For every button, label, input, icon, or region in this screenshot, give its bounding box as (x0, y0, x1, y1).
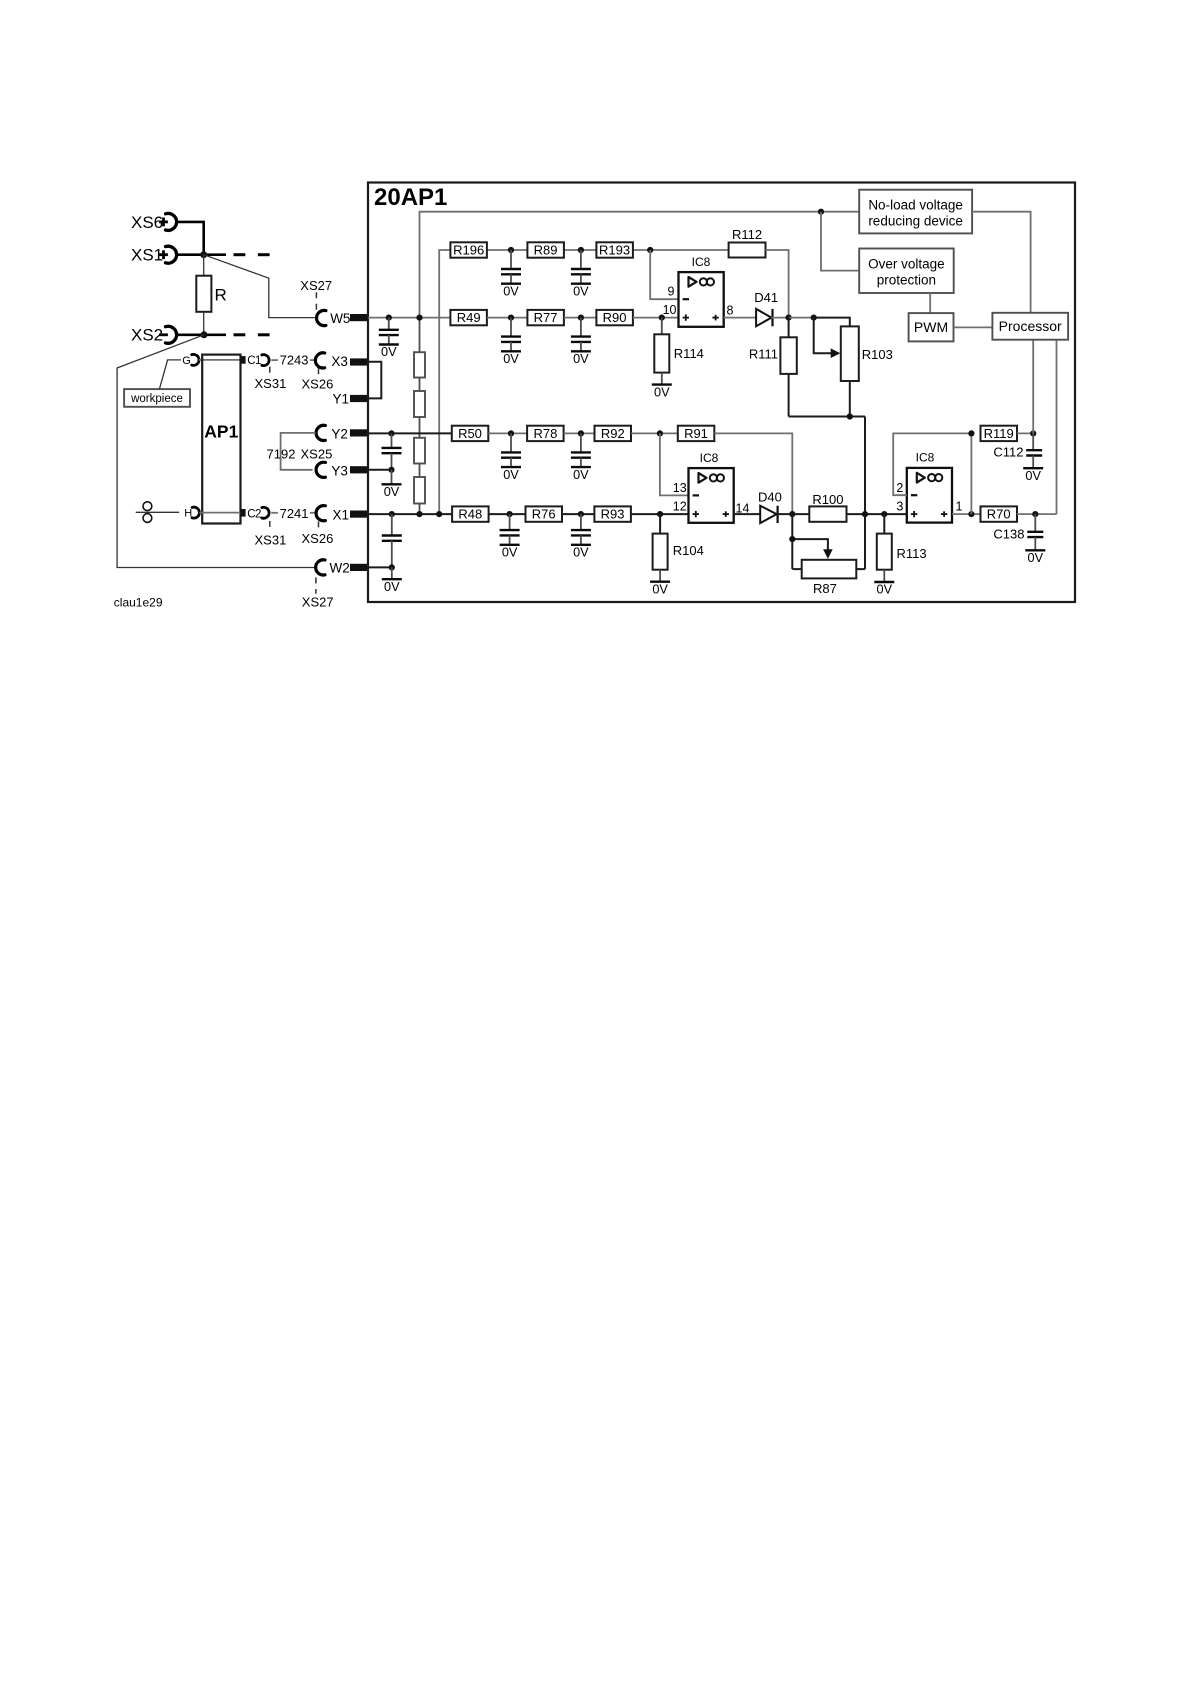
resistor R77 (527, 310, 564, 325)
svg-text:R113: R113 (897, 546, 927, 561)
svg-text:Y2: Y2 (331, 427, 348, 442)
box 20AP1 (368, 183, 1075, 603)
wire R112 to D41 node (766, 250, 789, 318)
svg-text:0V: 0V (573, 546, 589, 560)
svg-text:R77: R77 (534, 310, 558, 325)
svg-text:clau1e29: clau1e29 (114, 596, 163, 610)
node R113 tap (881, 511, 887, 517)
svg-text:No-load voltage: No-load voltage (868, 197, 963, 212)
pin 10 (663, 303, 689, 321)
pin 8 (712, 304, 733, 321)
svg-text:AP1: AP1 (204, 422, 238, 442)
svg-text:PWM: PWM (914, 319, 948, 335)
svg-text:0V: 0V (503, 352, 519, 366)
svg-text:Over voltage: Over voltage (868, 257, 945, 272)
wire D41 node to R103 (789, 318, 850, 327)
svg-text:XS1: XS1 (131, 246, 163, 265)
wire XS2 to W2 (117, 335, 315, 568)
svg-text:R50: R50 (458, 426, 482, 441)
wire R50 to R78 (488, 432, 527, 434)
svg-text:R114: R114 (674, 346, 704, 361)
wire R90 to IC8 pin 10 (633, 317, 679, 319)
box AP1 (202, 355, 240, 524)
node top junction (818, 209, 824, 215)
node after R49 (508, 315, 514, 321)
svg-text:Y3: Y3 (331, 463, 348, 478)
wire H to C2 (199, 512, 240, 514)
wire R48 to R76 (489, 513, 526, 515)
wire IC8 out to R70 (952, 513, 981, 515)
svg-text:1: 1 (956, 499, 963, 513)
connector XS25 at Y3 (316, 462, 325, 477)
svg-text:7241: 7241 (280, 506, 309, 521)
capacitor at R50-R78 to 0V (501, 433, 521, 481)
svg-text:R196: R196 (453, 243, 484, 258)
wire R119 node to processor (1032, 340, 1034, 434)
wire PWM to processor (954, 326, 993, 328)
svg-text:R70: R70 (987, 507, 1011, 522)
node after R89 (578, 247, 584, 253)
wire row W2 (368, 566, 392, 568)
wire over voltage to PWM (929, 293, 931, 313)
svg-text:0V: 0V (573, 284, 589, 298)
node after R70 (1032, 511, 1038, 517)
svg-text:0V: 0V (503, 468, 519, 482)
cable 7241 (271, 506, 314, 521)
capacitor at W5 to 0V (379, 318, 399, 360)
node after R76 (578, 511, 584, 517)
node XS1 junction (200, 251, 207, 258)
wire R93 to IC8 pin 12 (631, 513, 689, 515)
pin 3 (896, 499, 917, 517)
port X1 (333, 508, 369, 523)
svg-text:R92: R92 (601, 426, 625, 441)
svg-text:W2: W2 (330, 561, 350, 576)
wire row X1 (368, 513, 452, 515)
svg-text:R111: R111 (749, 347, 778, 362)
svg-text:XS2: XS2 (131, 326, 163, 345)
capacitor at R77-R90 to 0V (571, 318, 591, 366)
wire row Y2 (368, 432, 452, 434)
wire X3-Y1 loop (368, 362, 381, 399)
node W5 cap tap (386, 315, 392, 321)
resistor R100 (809, 492, 846, 522)
wire row Y3 (368, 469, 392, 471)
resistor chain divider (414, 318, 425, 514)
connector XS31 at C1 (255, 367, 287, 391)
wire XS1 row (177, 253, 226, 256)
port Y1 (333, 392, 369, 407)
svg-text:R48: R48 (458, 507, 482, 522)
wire XS6 to XS1 (177, 222, 204, 255)
node Y2 cap tap (388, 430, 394, 436)
svg-text:D41: D41 (754, 290, 778, 305)
box PWM (909, 313, 954, 341)
svg-text:XS26: XS26 (302, 531, 334, 546)
node D40 output (789, 511, 795, 517)
svg-text:R: R (215, 286, 227, 305)
resistor R92 (595, 426, 632, 441)
svg-text:R87: R87 (813, 581, 837, 596)
connector XS31 at C2 (255, 521, 287, 547)
resistor R112 (729, 227, 766, 258)
svg-text:R100: R100 (812, 492, 843, 507)
node D41 cathode (786, 315, 792, 321)
wire top bus (420, 212, 860, 318)
svg-text:XS26: XS26 (302, 377, 334, 392)
connector XS2 (131, 326, 177, 345)
wire R77 to R90 (564, 317, 596, 319)
svg-text:0V: 0V (502, 546, 518, 560)
resistor R90 (596, 310, 633, 325)
box no-load voltage reducing device (859, 190, 972, 234)
svg-text:0V: 0V (384, 580, 400, 594)
svg-text:7192: 7192 (267, 446, 296, 461)
svg-text:0V: 0V (877, 583, 893, 597)
svg-text:workpiece: workpiece (130, 393, 183, 405)
electrode G (182, 354, 199, 366)
node after R50 (508, 430, 514, 436)
svg-text:0V: 0V (654, 385, 670, 399)
wire R49 to R77 (487, 317, 527, 319)
capacitor at R76-R93 to 0V (571, 514, 591, 559)
wire row W5 (368, 317, 451, 319)
resistor R70 (981, 506, 1018, 521)
port Y2 (331, 427, 368, 442)
node IC8 pin10 junction (659, 315, 665, 321)
resistor R119 (981, 426, 1018, 441)
pin 12 (673, 500, 699, 518)
cable 7192 bracket (267, 433, 333, 470)
op-amp IC8 pins 2 3 1 (907, 451, 952, 523)
pin 2 (896, 481, 917, 495)
node Y3 junction (388, 467, 394, 473)
node after R196 (508, 247, 514, 253)
svg-text:8: 8 (727, 304, 734, 318)
svg-text:3: 3 (896, 499, 903, 513)
wire R70 to processor (1017, 340, 1057, 514)
svg-text:9: 9 (668, 284, 675, 298)
svg-text:R112: R112 (732, 227, 762, 242)
resistor R50 (452, 426, 489, 441)
resistor R89 (527, 242, 564, 257)
svg-text:XS6: XS6 (131, 213, 163, 232)
connector XS1 (131, 246, 177, 265)
svg-text:C138: C138 (993, 526, 1024, 541)
ground 0V under R104 (650, 582, 670, 597)
box Processor (992, 313, 1068, 340)
svg-text:XS31: XS31 (255, 376, 287, 391)
resistor R76 (526, 506, 563, 521)
node X1 divider bottom (416, 511, 422, 517)
wire IC8 out to D41 (724, 317, 756, 319)
connector XS6 (131, 213, 177, 232)
ground 0V under C138 (1025, 550, 1045, 565)
diode D41 (754, 290, 788, 326)
pin 1 (941, 499, 963, 517)
svg-text:W5: W5 (330, 311, 350, 326)
svg-text:0V: 0V (381, 345, 397, 359)
svg-text:0V: 0V (573, 352, 589, 366)
node X1 v2 bottom (436, 511, 442, 517)
resistor R93 (594, 506, 631, 521)
pin 14 (723, 502, 750, 517)
connector XS27 at W5 (300, 278, 332, 326)
resistor R48 (452, 506, 489, 521)
wire no-load to processor (972, 212, 1031, 313)
ground 0V under C112 (1023, 468, 1043, 483)
node R100 output (862, 511, 868, 517)
wire R119 to C112 (1017, 432, 1033, 434)
wire to IC8 pin 13 (660, 433, 689, 495)
svg-text:IC8: IC8 (916, 451, 935, 465)
node W5 divider junction (416, 315, 422, 321)
svg-text:R103: R103 (862, 347, 893, 362)
wire to over voltage box (821, 212, 859, 271)
contact H (136, 502, 200, 523)
cable 7243 (271, 353, 314, 368)
pin 13 (673, 481, 699, 495)
svg-text:IC8: IC8 (700, 451, 719, 465)
wire R76 to R93 (562, 513, 594, 515)
svg-text:12: 12 (673, 500, 687, 514)
svg-text:0V: 0V (1025, 469, 1041, 483)
svg-text:R78: R78 (533, 426, 557, 441)
svg-text:R193: R193 (599, 243, 630, 258)
svg-text:Y1: Y1 (333, 392, 350, 407)
svg-text:7243: 7243 (280, 353, 309, 368)
wire R91 to D40 node (714, 433, 792, 514)
resistor R193 (596, 242, 633, 257)
node XS2 junction (201, 331, 208, 338)
connector XS27 at W2 (302, 560, 334, 610)
svg-text:XS25: XS25 (301, 447, 333, 462)
port X3 (331, 354, 368, 369)
capacitor Y2 to Y3 (382, 433, 402, 469)
potentiometer R87 (792, 514, 865, 596)
resistor R113 (877, 514, 927, 582)
node R103 bottom (847, 413, 853, 419)
svg-text:R91: R91 (684, 426, 708, 441)
wire IC8 out to D40 (734, 513, 761, 515)
resistor R111 (749, 318, 797, 417)
svg-text:XS27: XS27 (302, 595, 334, 610)
node IC8 pin1 output (968, 511, 974, 517)
node after R119 (1030, 430, 1036, 436)
port W5 (330, 311, 368, 326)
pin 9 (668, 284, 689, 299)
capacitor at R49-R77 to 0V (501, 318, 521, 366)
capacitor C138 (993, 514, 1043, 550)
wire feedback vertical (970, 433, 972, 514)
wire R78 to R92 (564, 432, 595, 434)
wire XS1 to W5 (204, 255, 317, 318)
wire G to C1 (199, 359, 241, 361)
op-amp IC8 pins 9 10 8 (679, 255, 724, 327)
svg-text:0V: 0V (573, 468, 589, 482)
resistor R (196, 255, 226, 335)
svg-text:0V: 0V (503, 284, 519, 298)
capacitor at R48-R76 to 0V (500, 514, 520, 559)
svg-text:R104: R104 (673, 543, 704, 558)
svg-text:20AP1: 20AP1 (374, 184, 447, 211)
svg-text:0V: 0V (652, 582, 668, 596)
op-amp IC8 pins 13 12 14 (689, 451, 734, 523)
svg-text:C112: C112 (993, 445, 1023, 460)
svg-text:2: 2 (896, 481, 903, 495)
node after R193 (647, 247, 653, 253)
svg-text:R90: R90 (603, 310, 627, 325)
wire R111 R103 bottoms to node (789, 417, 865, 570)
ground 0V at Y3 (382, 470, 402, 499)
workpiece label (124, 360, 190, 407)
svg-text:protection: protection (877, 273, 936, 288)
svg-text:R93: R93 (601, 507, 625, 522)
capacitor C112 (993, 433, 1042, 468)
node R87 wiper (789, 536, 795, 542)
text clau1e29 (114, 596, 163, 610)
node R103 wiper tap (811, 315, 817, 321)
wire R100 to IC8 pin 3 (847, 513, 907, 515)
svg-text:C2: C2 (247, 508, 261, 520)
svg-text:D40: D40 (758, 490, 782, 505)
resistor R91 (678, 426, 715, 441)
svg-text:XS31: XS31 (255, 532, 287, 547)
wire XS2 row (177, 333, 226, 336)
svg-text:IC8: IC8 (692, 255, 711, 269)
node R119 input (968, 430, 974, 436)
svg-text:R49: R49 (457, 310, 481, 325)
node after R92 (657, 430, 663, 436)
connector XS26 at X1 (302, 506, 334, 546)
ground 0V under R113 (874, 582, 894, 597)
capacitor at R196-R89 to 0V (501, 250, 521, 298)
diode D40 (758, 490, 809, 524)
node X1 cap tap (389, 511, 395, 517)
wire R92 to R91 (631, 432, 678, 434)
dashed line XS2 row (234, 333, 270, 336)
svg-text:10: 10 (663, 303, 677, 317)
svg-text:C1: C1 (247, 355, 261, 367)
svg-text:XS27: XS27 (300, 278, 332, 293)
svg-text:reducing device: reducing device (868, 213, 963, 228)
port W2 (330, 561, 369, 576)
capacitor at R89-R193 to 0V (571, 250, 591, 298)
resistor R49 (450, 310, 487, 325)
connector XS25 at Y2 (316, 425, 325, 440)
capacitor at R78-R92 to 0V (571, 433, 591, 481)
node IC8 pin12 junction (657, 511, 663, 517)
box over voltage protection (859, 249, 954, 294)
resistor R196 (450, 242, 487, 257)
pad C1 (240, 355, 269, 368)
svg-text:Processor: Processor (999, 318, 1062, 334)
svg-text:G: G (182, 355, 191, 367)
resistor R114 (654, 318, 704, 385)
svg-text:X3: X3 (331, 354, 348, 369)
wire row R196 (487, 249, 729, 251)
svg-text:0V: 0V (384, 485, 400, 499)
ground 0V under R114 (652, 385, 672, 400)
capacitor X1 to W2 (382, 514, 402, 567)
ground 0V at W2 (382, 567, 402, 594)
port Y3 (331, 463, 368, 478)
wire to IC8 pin 9 (650, 250, 678, 299)
svg-text:X1: X1 (333, 508, 350, 523)
node W2 junction (389, 564, 395, 570)
connector XS26 at X3 (302, 353, 334, 392)
svg-text:0V: 0V (1028, 551, 1044, 565)
wire feedback to pin 2 (893, 433, 971, 495)
svg-text:R119: R119 (984, 426, 1014, 441)
node after R78 (578, 430, 584, 436)
pad C2 (240, 507, 269, 520)
svg-text:R76: R76 (532, 507, 556, 522)
node after R48 (507, 511, 513, 517)
node after R77 (578, 315, 584, 321)
resistor R104 (653, 514, 704, 582)
svg-text:R89: R89 (534, 243, 558, 258)
svg-text:13: 13 (673, 481, 687, 495)
potentiometer R103 (814, 318, 893, 417)
dashed line XS1 row (234, 253, 270, 256)
resistor R78 (527, 426, 564, 441)
wire vertical bus v2 (439, 250, 450, 514)
